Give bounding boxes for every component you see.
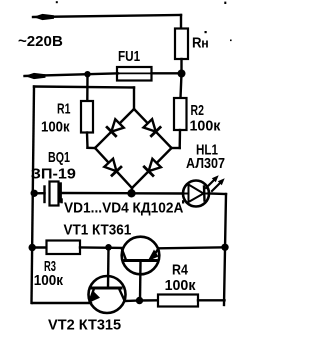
label FU1 — [118, 48, 141, 65]
node: VT2 collector / VT1 base / R4 — [136, 297, 143, 304]
svg-text:FU1: FU1 — [118, 48, 141, 65]
svg-text:VT2 КТ315: VT2 КТ315 — [48, 317, 121, 333]
svg-text:100к: 100к — [41, 118, 70, 135]
label Rн — [192, 34, 209, 51]
transistor VT2 — [88, 276, 126, 313]
wire : right vertical rail — [224, 194, 226, 305]
piezo BQ1 — [34, 182, 131, 206]
wire : bridge output to HL1 — [132, 192, 184, 195]
transistor VT1 — [122, 237, 160, 301]
wire : bridge top stem — [133, 88, 135, 110]
wire : VT2 collector to node — [125, 299, 140, 302]
wire : HL1 to right rail — [209, 192, 227, 195]
LED HL1 — [183, 181, 209, 207]
svg-text:АЛ307: АЛ307 — [186, 154, 225, 171]
label VT1 КТ361 — [64, 222, 132, 239]
wire : VT1 emitter to right rail — [160, 247, 226, 248]
resistor R2 — [172, 74, 187, 149]
label VT2 КТ315 — [48, 317, 121, 333]
wire : bridge bottom stem — [130, 188, 133, 193]
diode VD2 (bridge top-right arm) — [134, 109, 172, 148]
label HL1 АЛ307 — [186, 141, 225, 171]
label R4 100к — [165, 261, 197, 294]
label ~220В — [18, 34, 63, 50]
wire : horizontal tie from left rail to bridge top — [34, 87, 134, 88]
wire : AC line 1 (top mains lead) — [33, 14, 181, 20]
resistor R3 — [32, 241, 122, 255]
label R1 100к — [41, 100, 70, 135]
node: junction of Rн, FU1, R2 — [178, 70, 186, 78]
svg-text:R1: R1 — [57, 100, 70, 117]
svg-text:~220В: ~220В — [18, 34, 63, 50]
label BQ1 ЗП-19 — [31, 148, 77, 182]
node: left rail to BQ1 — [31, 190, 38, 197]
label R2 100к — [190, 101, 222, 135]
scan specks (artifacts present in original) — [56, 1, 232, 203]
label R3 100к — [34, 258, 64, 289]
wire : left vertical rail — [32, 87, 35, 304]
svg-text:100к: 100к — [34, 272, 64, 289]
resistor R1 — [81, 74, 95, 148]
node: junction on AC line 2 feeding R1 and bridge — [84, 71, 90, 77]
svg-text:R2: R2 — [191, 101, 204, 118]
node: R3 / VT1 collector / VT2 base — [105, 244, 112, 251]
diode VD4 (bridge bottom-right arm) — [132, 148, 172, 188]
svg-text:100к: 100к — [165, 278, 197, 294]
diode VD3 (bridge bottom-left arm) — [95, 148, 132, 188]
svg-text:VT1 КТ361: VT1 КТ361 — [64, 222, 132, 239]
label VD1...VD4 КД102А — [64, 200, 183, 217]
fuse FU1 — [117, 67, 182, 81]
svg-text:н: н — [201, 36, 208, 50]
svg-text:BQ1: BQ1 — [48, 148, 70, 165]
svg-text:R4: R4 — [172, 261, 188, 277]
node: left rail to R3 — [29, 244, 36, 251]
resistor Rн (heater load) — [175, 15, 188, 73]
wire : AC line 2 (lower mains lead) — [25, 73, 119, 79]
svg-text:100к: 100к — [190, 118, 222, 134]
svg-text:ЗП-19: ЗП-19 — [31, 166, 77, 182]
resistor R4 — [140, 295, 225, 307]
LED emission arrows — [206, 175, 225, 191]
node: bridge output junction — [127, 189, 135, 197]
svg-text:VD1...VD4 КД102А: VD1...VD4 КД102А — [64, 200, 183, 217]
svg-text:R: R — [192, 34, 202, 51]
node: right rail to VT1 emitter — [221, 244, 228, 251]
diode VD1 (bridge top-left arm) — [95, 109, 134, 148]
wire : VT2 emitter to left rail — [33, 302, 92, 304]
wire : VT2 base lead — [107, 247, 110, 288]
